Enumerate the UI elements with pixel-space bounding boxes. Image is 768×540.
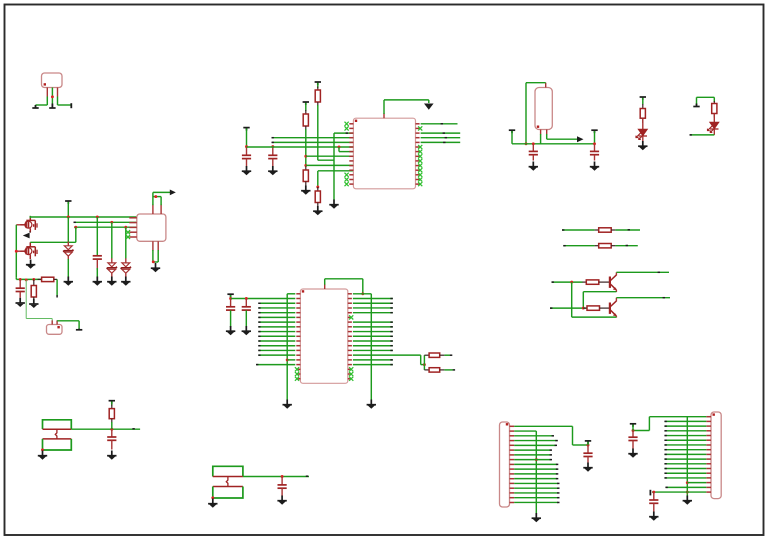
net right of R14 xyxy=(444,369,453,371)
junction C1 top xyxy=(245,145,248,148)
ground bar right of Y1 xyxy=(76,329,82,330)
U2 right net row10 xyxy=(353,335,393,337)
thin net wire to crystal xyxy=(25,280,27,319)
wire down to R14 xyxy=(423,365,425,370)
U4 NC marks xyxy=(126,230,130,239)
U2 right net row16 xyxy=(353,364,393,366)
J2 net pin3 xyxy=(665,425,707,427)
ground below R4 xyxy=(313,206,322,215)
wire U3 top loop to rail xyxy=(526,82,546,84)
J2 net pin14 xyxy=(665,477,707,479)
U4 top pin B xyxy=(160,204,162,214)
capacitor C7 xyxy=(230,299,232,307)
J1 net pin13 xyxy=(514,482,558,484)
junction S1 ground xyxy=(41,448,44,451)
IC U2 body (center) xyxy=(300,289,347,383)
ground below D1 xyxy=(638,141,647,150)
J1 net pin4 xyxy=(514,440,556,442)
supply bar above caps xyxy=(227,294,233,297)
resistor R8 xyxy=(595,245,599,247)
capacitor C9 xyxy=(111,429,113,437)
J1 net pin9 xyxy=(514,463,557,465)
wires bottom pins to ground xyxy=(152,250,154,262)
resistor R13 xyxy=(424,354,429,356)
rail1 horizontal to IC xyxy=(30,216,137,218)
J1 net pin12 xyxy=(514,478,557,480)
zener D3 xyxy=(67,217,69,242)
J1 net pin7 xyxy=(514,454,550,456)
junction column row17 xyxy=(686,491,689,494)
S1 output wire xyxy=(71,428,140,430)
MOSFET Q4 (lower) xyxy=(20,242,37,259)
ground bar right (rotated) xyxy=(70,103,72,108)
ground below C1 xyxy=(242,166,251,175)
junction bottom xyxy=(152,260,155,263)
junction resistor pair xyxy=(423,363,426,366)
U2 left net row9 xyxy=(259,331,296,333)
crystal Y1 body xyxy=(47,325,63,335)
J1 net pin16 xyxy=(514,497,558,499)
J1 pins xyxy=(510,426,515,502)
supply bar above C11 xyxy=(585,441,591,444)
net row6 caps to IC xyxy=(247,146,354,148)
capacitor C11 xyxy=(587,445,589,453)
capacitor C13 xyxy=(653,492,655,500)
J1 pin2 wire to ground column xyxy=(514,430,536,432)
supply bar above R2 xyxy=(315,82,321,85)
capacitor C10 xyxy=(281,477,283,485)
J2 net pin11 xyxy=(665,463,707,465)
wire pin1 to ground bar xyxy=(46,97,48,106)
wire pinA down xyxy=(540,134,542,144)
J1 net pin17 xyxy=(514,501,558,503)
wire bar to row2 xyxy=(230,295,232,299)
wire R15 to junction xyxy=(111,422,113,429)
rail2 horizontal to IC xyxy=(74,221,137,223)
regulator U3 body xyxy=(535,88,552,130)
wire bar to R15 xyxy=(111,402,113,406)
MOSFET Q3 (upper) xyxy=(20,216,37,233)
ground below right column xyxy=(367,400,376,409)
ground below S1 xyxy=(38,451,47,460)
wire bar to R5 xyxy=(642,98,644,105)
U2 right net row12 xyxy=(353,345,393,347)
junction C7 xyxy=(229,297,232,300)
connector J2 body xyxy=(711,412,721,499)
Y1 pin 2 xyxy=(56,320,58,324)
ground below C9 xyxy=(107,451,116,460)
wire pin2 down xyxy=(51,97,53,104)
wire U2 top loop to right pin1 xyxy=(324,279,326,285)
junction C2 top xyxy=(271,145,274,148)
U2 left row15 wire xyxy=(287,359,295,361)
wire bar down to rail1 xyxy=(67,202,69,218)
transistor Q1 xyxy=(610,275,617,290)
IC U1 body (top-center) xyxy=(353,118,415,189)
J1 net pin6 xyxy=(514,449,550,451)
switch S1 housing top xyxy=(43,420,72,429)
ground below R3 xyxy=(301,186,310,195)
S2 contact bar bottom xyxy=(213,486,243,488)
connector SP1 (3-pin, top-left) xyxy=(42,73,63,88)
wire input2 to R10 xyxy=(583,307,587,309)
ground below D4 xyxy=(107,277,116,286)
resistor R4 xyxy=(317,187,319,191)
resistor R14 xyxy=(424,369,429,371)
switch S2 housing top xyxy=(213,466,243,476)
U2 right net row8 xyxy=(353,326,393,328)
junction thin net tap xyxy=(25,278,28,281)
capacitor C4 xyxy=(594,144,596,152)
S2 contact bar top xyxy=(213,476,243,478)
output arrow right xyxy=(577,136,584,142)
J2 row16 wire xyxy=(666,486,707,488)
junction row6 jog xyxy=(338,146,341,149)
wire C5 to ground xyxy=(96,259,98,270)
ground below C8 xyxy=(242,326,251,335)
J2 ground column xyxy=(686,417,688,496)
Q3 gate wire to left rail xyxy=(16,224,21,226)
resistor R1 xyxy=(305,110,307,114)
wire bar to C1 xyxy=(246,128,248,147)
ground below C13 xyxy=(649,512,658,521)
Y1 pin 1 xyxy=(51,320,53,324)
J2 pin1 wire to capacitor xyxy=(649,416,706,418)
U2 right net row11 xyxy=(353,340,393,342)
J2 net pin8 xyxy=(665,449,707,451)
ground bar left xyxy=(32,105,38,108)
wire up to R13 xyxy=(423,355,425,364)
U1 right wire pin4 xyxy=(421,137,461,139)
U2 right NC marks bottom xyxy=(349,367,353,371)
J1 pin1 wire to capacitor xyxy=(514,425,572,427)
ground at x334 xyxy=(329,200,338,209)
U2 right row14 wire to resistors xyxy=(353,354,421,356)
U1 right wire pin3 xyxy=(421,132,461,134)
wire IC pin11 branch down to R4 xyxy=(317,171,319,188)
junction R11 tap xyxy=(32,278,35,281)
junction on pin2 wire xyxy=(51,95,54,98)
U2 left pins xyxy=(296,294,300,379)
resistor R3 xyxy=(305,167,307,171)
S2 actuator xyxy=(226,477,228,487)
net arrow below Q3 xyxy=(23,233,30,239)
supply arrow down (VCC) xyxy=(424,104,434,110)
ground below C4 xyxy=(590,162,599,171)
wire to R6 xyxy=(713,97,715,102)
wire Y1 pin2 to ground xyxy=(57,320,79,322)
supply bar above C12 xyxy=(630,424,636,427)
J2 net pin10 xyxy=(665,458,707,460)
U2 left net row14 xyxy=(259,354,296,356)
J1 net pin5 xyxy=(514,444,555,446)
U2 right net row5 xyxy=(353,312,393,314)
supply arrow right of U4 xyxy=(170,190,176,196)
wire top pins loop xyxy=(152,192,154,205)
zener D4 xyxy=(107,263,117,273)
net wire left of R7 xyxy=(562,229,595,231)
bottom rail of MOSFET section xyxy=(15,277,17,279)
ground below J1 column xyxy=(532,513,541,522)
supply bar above R1 xyxy=(303,102,309,105)
junction RC tap xyxy=(110,428,113,431)
resistor R6 xyxy=(713,101,715,104)
supply bar left of rail xyxy=(509,130,515,133)
left gate rail vertical xyxy=(15,225,17,277)
jog row6 to pin7 xyxy=(338,147,340,152)
J2 net pin5 xyxy=(665,435,707,437)
U2 left row16 wire xyxy=(256,364,295,366)
LED D1 xyxy=(642,118,644,129)
net row4 into IC xyxy=(272,137,353,139)
ground below C7 xyxy=(226,326,235,335)
capacitor C12 xyxy=(632,431,634,438)
junction R1 net row8 xyxy=(304,155,307,158)
Q2 collector lead xyxy=(615,298,617,302)
input net 1 xyxy=(552,281,583,283)
Q1 emitter lead xyxy=(615,290,617,292)
ground below C6 xyxy=(16,298,25,307)
ground below C12 xyxy=(628,449,637,458)
supply bar above R15 xyxy=(109,401,115,404)
J2 net pin7 xyxy=(665,444,707,446)
ground below C11 xyxy=(583,463,592,472)
J1 net pin3 xyxy=(514,435,552,437)
supply bar top xyxy=(65,201,71,204)
Q2 emitter lead xyxy=(615,316,617,318)
U2 left net row8 xyxy=(259,326,296,328)
D2 cathode lead xyxy=(713,129,715,135)
resistor R12 (horizontal) xyxy=(38,278,42,280)
S2 output wire xyxy=(243,476,309,478)
ground below S2 xyxy=(208,499,217,508)
U4 bottom pin B xyxy=(157,241,159,251)
net right of R13 xyxy=(444,354,450,356)
U1 top pin xyxy=(383,113,385,118)
ground below C3 xyxy=(529,162,538,171)
J2 net pin13 xyxy=(665,472,707,474)
junction C10 tap xyxy=(281,475,284,478)
ground below Q4 xyxy=(26,260,35,269)
ground below R11 xyxy=(29,299,38,308)
U2 right net row4 xyxy=(353,307,393,309)
J2 net pin2 xyxy=(665,420,707,422)
wire rail1 to C5 xyxy=(96,217,98,256)
resistor R15 xyxy=(111,405,113,409)
wire D5 to ground xyxy=(125,273,127,277)
capacitor C8 xyxy=(245,299,247,307)
resistor R5 xyxy=(642,104,644,109)
ground below U4 xyxy=(151,263,160,272)
resistor R7 xyxy=(595,229,599,231)
junction gate rail Q4 xyxy=(15,250,18,253)
U2 left NC marks xyxy=(295,367,299,371)
wire U1 top to supply arrow xyxy=(383,100,385,114)
ground bar middle xyxy=(51,104,53,108)
ground bar left of C13 xyxy=(649,490,651,496)
wire bar to R1 xyxy=(305,103,307,111)
Q1 collector net xyxy=(616,271,669,273)
J2 net pin6 xyxy=(665,439,707,441)
transistor Q2 xyxy=(610,301,617,316)
U2 left net row10 xyxy=(259,335,296,337)
junction left ground column xyxy=(286,358,289,361)
Q1 collector lead xyxy=(615,272,617,275)
ground below C5 xyxy=(93,277,102,286)
wire bar to junction xyxy=(632,425,634,431)
U1 right wire pin1 xyxy=(421,123,458,125)
net wire left of R8 xyxy=(563,245,594,247)
J1 net pin15 xyxy=(514,492,558,494)
J1 net pin8 xyxy=(514,459,550,461)
U2 left net row11 xyxy=(259,340,296,342)
J2 net pin12 xyxy=(665,468,707,470)
IC U4 body (small, left) xyxy=(137,214,166,241)
J1 net pin11 xyxy=(514,473,557,475)
U2 left row1 wire to ground column xyxy=(287,293,295,295)
junction C4 xyxy=(593,142,596,145)
junction C11 xyxy=(587,444,590,447)
junction C6 tap xyxy=(19,278,22,281)
supply bar above C4 xyxy=(591,130,597,133)
capacitor C1 xyxy=(246,147,248,155)
U1 right pins xyxy=(416,124,420,184)
J2 net pin9 xyxy=(665,453,707,455)
wire pinB to output arrow xyxy=(546,134,548,139)
U2 right net row3 xyxy=(353,302,393,304)
wire D2 to net stub xyxy=(690,134,714,136)
junction top loop xyxy=(154,195,157,198)
wire bar down to rail xyxy=(594,131,596,144)
wire D3 to ground xyxy=(67,256,69,259)
junction input1 xyxy=(570,281,573,284)
junction right pin1 xyxy=(361,292,364,295)
junction S2 ground xyxy=(211,496,214,499)
U2 left net row13 xyxy=(259,349,296,351)
supply bar above R5 xyxy=(640,97,646,100)
wire rail3 down to Q4 drain xyxy=(75,227,77,242)
supply bar above C1 xyxy=(243,128,249,131)
U2 right net row15 xyxy=(353,359,393,361)
ground below left column xyxy=(283,400,292,409)
S1 housing bottom xyxy=(43,439,72,450)
wire pin3 to right bar xyxy=(57,97,59,106)
wire R1 down to R3 xyxy=(305,129,307,167)
ground below C10 xyxy=(277,496,286,505)
net row5 into IC xyxy=(272,141,353,143)
U4 top pin A xyxy=(152,204,154,214)
net arrow on IC pin3 wire xyxy=(346,132,348,134)
U2 left net row3 xyxy=(259,302,296,304)
J2 row17 wire to capacitor xyxy=(652,491,706,493)
J2 row15 wire xyxy=(687,482,706,484)
ground below D5 xyxy=(121,277,130,286)
U2 left net row7 xyxy=(259,321,296,323)
U2 right row1 to ground column xyxy=(353,293,371,295)
U1 right NC marks xyxy=(418,126,422,186)
junction C3 tap xyxy=(532,142,535,145)
wire IC pin3 to ground column xyxy=(334,132,353,134)
wire bar down xyxy=(511,131,513,144)
connector J1 body xyxy=(500,422,510,507)
net row11 R4 to IC xyxy=(318,170,354,172)
resistor R9 (base Q1) xyxy=(582,281,586,283)
U3 bottom pin B xyxy=(546,130,548,135)
wire rail3 to D5 xyxy=(125,227,127,258)
U2 left net row12 xyxy=(259,345,296,347)
U2 left row2 wire xyxy=(231,298,296,300)
ground bar under LED2 feed xyxy=(693,104,699,107)
J1 net pin14 xyxy=(514,487,558,489)
U2 left net row5 xyxy=(259,312,296,314)
resistor R11 xyxy=(33,279,35,285)
wire rail2 to D4 xyxy=(111,222,113,258)
pin 1 of SP1 xyxy=(46,88,48,97)
wire R2 down to corner xyxy=(317,105,319,160)
J1 net pin10 xyxy=(514,468,557,470)
junction R1 net row10 xyxy=(304,164,307,167)
net row8 R1 to IC xyxy=(306,155,354,157)
S1 actuator xyxy=(55,429,57,439)
U1 right wire pin5 xyxy=(421,141,461,143)
capacitor C6 xyxy=(19,279,21,288)
resistor R2 xyxy=(317,87,319,91)
LED D2 xyxy=(713,114,715,123)
Q4 gate wire to left rail xyxy=(16,250,21,252)
resistor R10 (base Q2) xyxy=(583,307,587,309)
wire to supply arrow right xyxy=(153,191,170,193)
junction above R4 xyxy=(316,186,319,189)
wire R12 down to stub xyxy=(56,279,58,295)
net row10 R1 to IC xyxy=(306,164,354,166)
U2 right pins xyxy=(348,294,352,379)
Q2 emitter loop to input1 xyxy=(572,316,617,318)
capacitor C3 xyxy=(532,144,534,152)
U4 bottom pin A xyxy=(152,241,154,251)
junction column row15 xyxy=(686,481,689,484)
D1 cathode lead xyxy=(642,136,644,142)
junction C12 xyxy=(632,429,635,432)
U2 right NC row6 xyxy=(349,315,353,319)
U1 left NC marks xyxy=(345,122,349,187)
junction rail x526 xyxy=(525,142,528,145)
junction rail1 x97 xyxy=(96,216,99,219)
U2 top pin xyxy=(324,284,326,289)
pin 3 of SP1 xyxy=(57,88,59,97)
junction rail3 x75 xyxy=(74,226,77,229)
LED2 supply wire xyxy=(697,96,715,98)
wire D4 to ground xyxy=(111,273,113,277)
S1 contact bar top xyxy=(43,428,72,430)
U1 left pins xyxy=(349,124,353,184)
U3 bottom pin A xyxy=(540,130,542,135)
junction rail2 x111 xyxy=(110,221,113,224)
capacitor C2 xyxy=(272,147,274,155)
ground below J2 column xyxy=(683,496,692,505)
rail3 horizontal to IC xyxy=(75,226,137,228)
wire bar to R2 xyxy=(317,83,319,88)
J2 net pin4 xyxy=(665,430,707,432)
zener D5 xyxy=(121,263,131,273)
net wire right of R7 xyxy=(615,229,640,231)
S2 housing bottom xyxy=(213,487,243,499)
ground below C2 xyxy=(268,166,277,175)
U3 input pin top xyxy=(545,83,547,88)
Q3 drain corner xyxy=(29,216,31,218)
Q2 collector net xyxy=(616,297,670,299)
ground below D3 xyxy=(64,277,73,286)
U2 right net row13 xyxy=(353,349,393,351)
